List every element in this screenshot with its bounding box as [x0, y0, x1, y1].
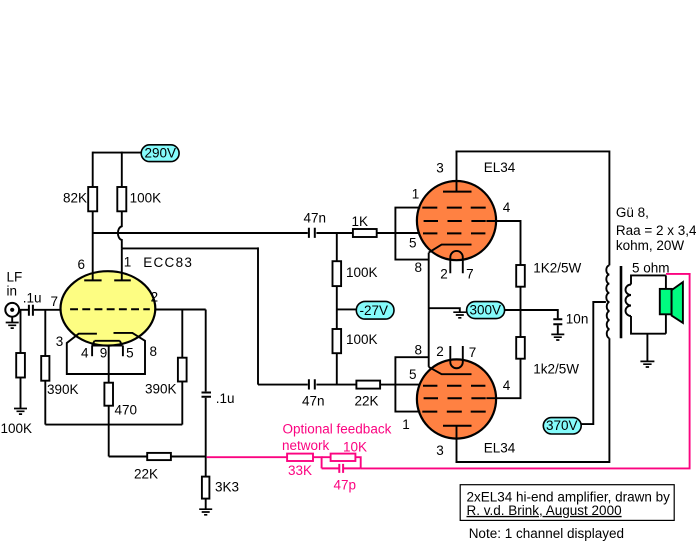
tube V3 pin 1 bracket to pin 8 [395, 357, 428, 411]
svg-text:2: 2 [436, 344, 444, 359]
tube V2 grid dashes row 2 [424, 220, 486, 222]
wire tap down from bottom rail [108, 425, 110, 457]
svg-text:kohm, 20W: kohm, 20W [616, 238, 685, 253]
svg-text:Gü 8,: Gü 8, [616, 205, 649, 220]
wire 390K left top lead [44, 310, 46, 356]
wire D through 22K to pin 5 of V3 [316, 384, 420, 386]
svg-text:4: 4 [81, 346, 89, 361]
resistor 22K grid [356, 381, 380, 389]
tube V1 anode bar pin 6 [84, 279, 101, 281]
svg-text:EL34: EL34 [484, 160, 516, 175]
capacitor 47n lower plates [309, 379, 315, 389]
node 300V oval [467, 302, 505, 319]
node 370V oval [543, 418, 581, 434]
transformer secondary winding [626, 285, 631, 317]
wire 390K right bottom lead [181, 382, 183, 425]
wire coupling cap vertical top [205, 310, 207, 392]
svg-text:3: 3 [436, 443, 444, 458]
svg-text:10n: 10n [566, 311, 589, 326]
svg-text:4: 4 [503, 200, 511, 215]
svg-text:300V: 300V [470, 303, 502, 318]
svg-text:3K3: 3K3 [215, 480, 239, 495]
transformer primary winding lower [607, 302, 610, 338]
svg-text:47n: 47n [302, 394, 325, 409]
capacitor .1u coupling plates [202, 393, 212, 397]
wire input 100K top lead [20, 310, 22, 353]
tube V3 grid dashes row 1 [423, 385, 485, 387]
svg-text:470: 470 [115, 403, 138, 418]
wire speaker right side [665, 275, 667, 333]
resistor 22K tail [147, 453, 171, 460]
svg-text:.1u: .1u [216, 391, 235, 406]
wire secondary top to speaker [631, 275, 666, 284]
wire feedback output to speaker [361, 274, 691, 470]
transformer primary winding upper [606, 265, 609, 302]
svg-text:33K: 33K [288, 463, 312, 478]
jack LF in [5, 303, 19, 317]
svg-text:5: 5 [126, 346, 134, 361]
svg-text:8: 8 [415, 343, 423, 358]
wire cathode tap to ground [429, 308, 460, 312]
wire input cap to pin 7 of V1 [34, 309, 61, 311]
svg-text:100K: 100K [130, 191, 162, 206]
svg-text:Raa = 2 x 3,4: Raa = 2 x 3,4 [616, 223, 696, 238]
svg-text:3: 3 [436, 161, 444, 176]
svg-text:1k2/5W: 1k2/5W [533, 362, 579, 377]
ground input 100K [14, 409, 27, 415]
svg-text:100K: 100K [346, 265, 378, 280]
wire 100K bottom lead with hop over anode wire [118, 211, 122, 248]
svg-text:5: 5 [409, 235, 417, 250]
resistor 390K left [41, 356, 49, 381]
ground 10n [551, 334, 564, 340]
tube V2 EL34 upper envelope [417, 181, 496, 260]
svg-text:2: 2 [151, 290, 159, 305]
resistor 100K divider upper [333, 261, 342, 286]
wire 390K left bottom lead [44, 381, 46, 425]
speaker LS horn [672, 282, 683, 323]
svg-text:1: 1 [124, 255, 132, 270]
tube V1 pin 5 lead [122, 346, 124, 357]
resistor 10K feedback [322, 456, 361, 468]
wire A right part through 1K to pin 5 of V2 [316, 232, 420, 234]
ground input jack [6, 323, 19, 329]
svg-text:Optional feedback: Optional feedback [283, 422, 392, 437]
svg-text:R. v.d. Brink, August 2000: R. v.d. Brink, August 2000 [467, 503, 622, 518]
svg-text:370V: 370V [546, 418, 578, 433]
svg-text:6: 6 [78, 257, 86, 272]
svg-text:7: 7 [466, 267, 474, 282]
capacitor .1u input plates [29, 305, 33, 316]
wire 370V oval to primary center tap [581, 302, 606, 424]
wire divider 100K/100K vertical [336, 233, 338, 385]
resistor 100K (plate) [117, 187, 126, 211]
resistor 3K3 [202, 477, 210, 499]
wire V3 anode down and right to transformer [456, 338, 610, 462]
tube V3 EL34 lower envelope [417, 359, 496, 438]
tube V2 grid dashes row 3 [423, 232, 485, 234]
tube V2 pin 1 bracket to pin 8 [395, 208, 428, 260]
wire 82K bottom lead to anode node [92, 211, 94, 233]
wire 300V node to 10n cap [505, 310, 558, 318]
svg-text:LF: LF [7, 269, 23, 284]
tube V1 grid dashed line [70, 308, 150, 310]
tube V1 ECC83 envelope [61, 271, 156, 345]
wire 390K right top lead [181, 310, 183, 358]
svg-text:9: 9 [100, 346, 108, 361]
svg-text:5 ohm: 5 ohm [632, 260, 670, 275]
wire screen chain between resistors [520, 287, 522, 337]
wire V2 pin 4 to screen resistor chain [486, 221, 520, 265]
tube V3 cathode [429, 367, 472, 374]
wire feedback input from node [207, 456, 287, 458]
tube V1 pin 4 lead [91, 346, 93, 357]
svg-text:in: in [7, 283, 18, 298]
svg-text:22K: 22K [355, 394, 379, 409]
wire A anode of V1 to grid of V2 (left part) [93, 232, 308, 234]
wire speaker loop to ground [646, 334, 648, 362]
svg-text:.1u: .1u [23, 291, 42, 306]
tube V1 anode bar pin 1 [114, 279, 131, 281]
capacitor 47n upper plates [309, 228, 315, 238]
wire coupling cap vertical bottom to feedback node [205, 398, 207, 477]
svg-text:8: 8 [415, 260, 423, 275]
svg-text:390K: 390K [47, 382, 79, 397]
speaker LS driver box [660, 289, 672, 314]
svg-text:10K: 10K [343, 440, 367, 455]
svg-text:1: 1 [402, 417, 410, 432]
resistor 390K right [178, 358, 187, 382]
svg-text:Note: 1 channel displayed: Note: 1 channel displayed [469, 526, 624, 541]
wire B pin 1 node horizontal [122, 247, 258, 249]
resistor 470 cathode [104, 383, 113, 406]
tube V2 grid dashes row 1 [422, 207, 485, 209]
resistor 100K input [16, 353, 25, 378]
tube V2 cathode [429, 245, 472, 253]
tube V3 heater pins 2 and 7 [450, 346, 463, 368]
wire 100K top lead [121, 152, 123, 187]
tube V1 cathode left [67, 333, 145, 374]
tube V1 pin 9 lead [108, 346, 110, 383]
capacitor 47p plates [322, 464, 361, 473]
svg-text:47p: 47p [334, 478, 357, 493]
capacitor 10n plates [553, 319, 562, 324]
svg-text:4: 4 [503, 378, 511, 393]
resistor 33K feedback [287, 454, 313, 461]
wire 470 bottom lead [108, 406, 110, 425]
tube V2 heater pins 2 and 7 [450, 251, 463, 273]
wire 10n cap to ground [557, 325, 559, 334]
resistor 82K [88, 187, 97, 211]
wire V1 pin 6 vertical [92, 233, 94, 280]
ground speaker [640, 361, 654, 367]
svg-text:1: 1 [412, 186, 420, 201]
wire 3K3 to ground [205, 499, 207, 509]
node -27V oval [356, 301, 394, 319]
wire cathode link V2 pin 8 to V3 pin 8 [428, 253, 430, 367]
svg-text:1K2/5W: 1K2/5W [533, 260, 581, 275]
svg-text:5: 5 [409, 367, 417, 382]
svg-text:1K: 1K [352, 214, 369, 229]
wire screen chain down to V3 pin 4 [486, 359, 520, 399]
frame box notes [460, 485, 674, 521]
transformer core [620, 266, 623, 338]
wire 22K to feedback node [171, 456, 206, 458]
ground 3K3 [199, 509, 212, 515]
wire B vertical drop to lower grid wire [257, 247, 259, 384]
wire cathode bottom rail [45, 424, 182, 426]
wire 290V rail [93, 152, 142, 154]
tube V3 grid dashes row 3 [422, 411, 485, 413]
wire 33K to parallel network [313, 456, 322, 468]
wire V2 anode up and right to transformer [456, 151, 610, 265]
svg-text:82K: 82K [63, 191, 87, 206]
wire to 22K tail resistor [109, 456, 148, 458]
wire V1 pin 2 to coupling cap node [155, 309, 205, 311]
svg-text:7: 7 [469, 345, 477, 360]
svg-text:47n: 47n [304, 211, 327, 226]
svg-text:100K: 100K [1, 421, 33, 436]
svg-text:8: 8 [150, 344, 158, 359]
node 290V supply oval [141, 145, 179, 162]
svg-text:network: network [282, 438, 330, 453]
wire jack sleeve to ground [11, 316, 13, 322]
wire input 100K bottom lead [20, 378, 22, 409]
svg-text:3: 3 [56, 334, 64, 349]
tube V3 anode bar [443, 425, 472, 427]
svg-text:7: 7 [51, 294, 59, 309]
wire 82K top lead [92, 152, 94, 187]
svg-text:390K: 390K [145, 382, 177, 397]
svg-text:ECC83: ECC83 [143, 255, 193, 270]
wire input jack to cap [19, 309, 29, 311]
tube V3 grid dashes row 2 [424, 397, 486, 399]
ground cathode link [453, 312, 466, 318]
svg-text:-27V: -27V [360, 303, 389, 318]
resistor 1k2/5W lower [516, 337, 525, 359]
svg-text:22K: 22K [134, 467, 158, 482]
svg-text:100K: 100K [346, 332, 378, 347]
svg-text:2: 2 [440, 267, 448, 282]
tube V2 anode bar [443, 191, 472, 193]
svg-text:290V: 290V [145, 146, 177, 161]
resistor 1K2/5W upper [516, 265, 525, 287]
wire D lower grid wire left part [258, 384, 308, 386]
wire secondary bottom to speaker [631, 316, 666, 334]
svg-text:EL34: EL34 [484, 440, 516, 455]
wire V1 pin 1 vertical [121, 248, 123, 280]
tube V1 heater [92, 341, 122, 346]
resistor 1K grid stopper [353, 229, 377, 237]
resistor 100K divider lower [333, 329, 342, 353]
wire tap to -27V oval [337, 308, 357, 310]
